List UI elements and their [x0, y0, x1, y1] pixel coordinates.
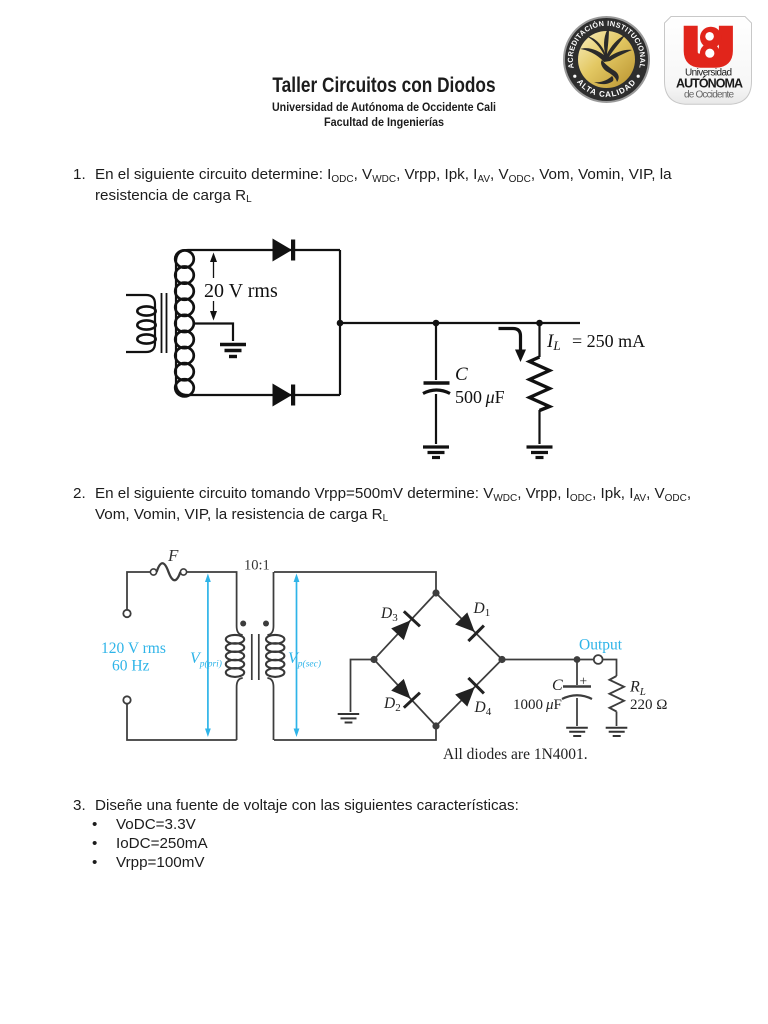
svg-text:D4: D4	[474, 699, 492, 718]
svg-text:RL: RL	[629, 679, 646, 699]
svg-text:de Occidente: de Occidente	[684, 90, 734, 101]
svg-text:F: F	[167, 546, 179, 565]
svg-text:60 Hz: 60 Hz	[112, 658, 150, 675]
svg-text:+: +	[580, 674, 588, 689]
svg-text:= 250 mA: = 250 mA	[572, 331, 645, 351]
svg-text:Vp(pri): Vp(pri)	[190, 650, 222, 670]
svg-text:20 V rms: 20 V rms	[204, 280, 278, 302]
svg-text:120 V rms: 120 V rms	[101, 640, 166, 657]
svg-text:C: C	[455, 364, 468, 385]
svg-text:D3: D3	[380, 605, 398, 624]
svg-text:Vp(sec): Vp(sec)	[288, 650, 321, 670]
svg-text:AUTÓNOMA: AUTÓNOMA	[676, 76, 743, 91]
svg-text:Output: Output	[579, 637, 623, 654]
svg-text:10:1: 10:1	[244, 558, 270, 574]
svg-text:220 Ω: 220 Ω	[630, 697, 667, 713]
svg-text:D2: D2	[383, 695, 401, 714]
svg-text:C: C	[552, 677, 563, 694]
svg-text:All diodes are 1N4001.: All diodes are 1N4001.	[443, 746, 588, 763]
svg-text:500 μF: 500 μF	[455, 387, 505, 407]
svg-text:D1: D1	[473, 600, 491, 619]
svg-text:IL: IL	[546, 331, 561, 353]
svg-text:1000 μF: 1000 μF	[513, 697, 562, 713]
